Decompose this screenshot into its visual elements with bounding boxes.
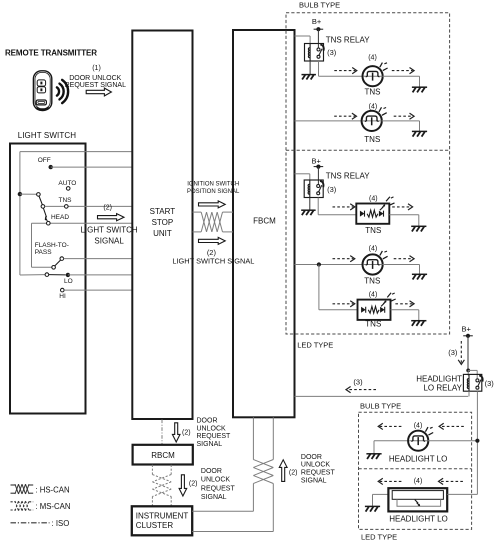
dashed arrow row4 left: [333, 256, 355, 262]
svg-text:HEADLIGHT LO: HEADLIGHT LO: [389, 514, 448, 523]
lamp TNS row2: [362, 107, 387, 131]
wire: pole to blade: [20, 193, 37, 195]
arrow: ignition switch position signal: [199, 201, 226, 208]
svg-text:REQUEST: REQUEST: [301, 470, 336, 477]
svg-text:TNS: TNS: [59, 197, 73, 204]
dashed separator headlight: [359, 468, 472, 470]
svg-text:STOP: STOP: [152, 218, 174, 227]
svg-text:(4): (4): [369, 196, 378, 203]
dashed arrow rowB right: [439, 478, 463, 484]
svg-text:DOOR: DOOR: [197, 417, 218, 424]
svg-text:(3): (3): [327, 185, 337, 194]
svg-text:SIGNAL: SIGNAL: [197, 441, 223, 448]
svg-text:(3): (3): [448, 348, 458, 357]
wire: TNS signal: [45, 205, 133, 207]
svg-text:LO: LO: [64, 278, 73, 285]
radio waves: [57, 80, 68, 103]
svg-text:HEAD: HEAD: [51, 214, 69, 221]
label door unlock request signal stack2: [201, 468, 236, 501]
svg-text:REMOTE TRANSMITTER: REMOTE TRANSMITTER: [5, 49, 97, 58]
svg-text:UNLOCK: UNLOCK: [301, 462, 331, 469]
svg-text:TNS RELAY: TNS RELAY: [326, 35, 371, 44]
svg-text:RBCM: RBCM: [151, 451, 175, 460]
svg-text:: MS-CAN: : MS-CAN: [35, 502, 70, 511]
svg-text:(2): (2): [289, 469, 298, 476]
svg-text:BULB TYPE: BULB TYPE: [299, 0, 340, 9]
svg-text:UNLOCK: UNLOCK: [197, 425, 227, 432]
label LIGHT SWITCH SIGNAL: [81, 225, 138, 245]
contact: blade pivot: [37, 193, 41, 197]
box: RBCM: [133, 445, 193, 465]
dashed arrow row3 right: [392, 204, 412, 210]
svg-text:TNS: TNS: [365, 226, 381, 235]
svg-text:FBCM: FBCM: [253, 217, 276, 226]
door unlock request arrow: [86, 88, 111, 96]
dashed arrow row5 left: [333, 301, 355, 307]
svg-text:(2): (2): [103, 204, 112, 211]
svg-text:UNLOCK: UNLOCK: [201, 477, 231, 484]
legend HS-CAN symbol: [11, 484, 34, 494]
wire: B+ to relay1 switch: [317, 29, 319, 48]
svg-text:PASS: PASS: [35, 249, 53, 256]
ground: row3: [411, 226, 426, 231]
svg-text:TNS: TNS: [365, 319, 381, 328]
lamp TNS row1: [363, 63, 388, 87]
node: OFF contact: [49, 165, 53, 169]
ground: row4: [412, 274, 427, 279]
node: rowA junction: [475, 439, 479, 443]
node: switch pole: [18, 192, 22, 196]
svg-text:BULB TYPE: BULB TYPE: [360, 402, 401, 411]
box: FBCM: [233, 30, 295, 417]
wire: light switch pole bus: [19, 152, 21, 275]
B+ node row3: [314, 165, 324, 169]
light switch box: [10, 144, 86, 414]
wire: lamp rowA to relay output: [428, 440, 478, 442]
label INSTRUMENT CLUSTER: [136, 511, 189, 530]
dashed arrow row3 left: [333, 204, 355, 210]
wire: FBCM to lamp row4: [295, 264, 364, 266]
svg-text:REQUEST SIGNAL: REQUEST SIGNAL: [65, 82, 126, 89]
svg-text:DOOR: DOOR: [301, 454, 322, 461]
ground: row2: [412, 131, 427, 136]
ISO line START STOP to RBCM: [161, 420, 163, 445]
svg-text:(4): (4): [414, 422, 423, 429]
dashed arrow rowB left: [378, 478, 401, 484]
contact HEAD: [47, 221, 51, 225]
wire: FBCM to headlight relay coil: [295, 395, 469, 397]
wire: relay2 coil to ground: [309, 198, 311, 211]
wire: ground to lamp rowA: [374, 441, 409, 454]
wire: junction to LED row5: [319, 265, 358, 310]
wire: relay1 coil to ground: [309, 61, 311, 75]
wire: pole to start stop unit: [20, 151, 132, 153]
svg-text:SIGNAL: SIGNAL: [301, 478, 327, 485]
wire: FBCM to lamp row2: [295, 120, 363, 122]
svg-text:IGNITION SWITCH: IGNITION SWITCH: [187, 182, 239, 188]
wire: LED row3 to ground: [389, 215, 419, 227]
svg-text:LIGHT SWITCH: LIGHT SWITCH: [81, 225, 138, 234]
wire: pole to dimmer blade: [20, 274, 45, 276]
svg-text:LED TYPE: LED TYPE: [297, 341, 333, 350]
ground: relay1 coil: [301, 75, 315, 80]
ground: rowB: [365, 506, 380, 511]
arrow: light switch signal to FBCM: [199, 237, 226, 244]
switch blade lower with arrowhead: [43, 208, 48, 221]
svg-text:(2): (2): [189, 480, 198, 487]
switch blade upper: [39, 196, 42, 205]
remote transmitter key fob: [33, 71, 51, 110]
svg-text:REQUEST: REQUEST: [197, 433, 232, 440]
wire: LED rowB to relay output: [447, 493, 477, 495]
lamp TNS row4: [363, 251, 388, 275]
svg-text:TNS: TNS: [364, 135, 380, 144]
node: LO contact: [66, 273, 70, 277]
contact AUTO: [66, 187, 70, 191]
light switch signal arrow: [98, 214, 125, 221]
wire: lamp row2 to ground: [381, 121, 419, 131]
svg-text:(1): (1): [92, 65, 101, 72]
dashed arrow row4 right: [394, 256, 414, 262]
legend MS-CAN symbol: [11, 501, 34, 511]
svg-text:INSTRUMENT: INSTRUMENT: [136, 511, 189, 520]
wire: LO signal: [68, 274, 132, 276]
svg-text:(4): (4): [369, 103, 378, 110]
node: relay3 B+ junction: [466, 369, 470, 373]
svg-text:CLUSTER: CLUSTER: [136, 521, 174, 530]
label (1) door unlock request signal: [65, 65, 126, 89]
wire: HEAD signal: [32, 222, 133, 224]
svg-text:(3): (3): [353, 378, 363, 387]
MS-CAN twisted pair RBCM to instrument cluster: [152, 465, 171, 507]
svg-text:DOOR: DOOR: [201, 468, 222, 475]
wire: relay1 switch to lamp row1: [319, 61, 363, 76]
svg-text:TNS: TNS: [365, 88, 381, 97]
ground: row5: [411, 321, 426, 326]
contact HI: [61, 288, 65, 292]
svg-text:LO RELAY: LO RELAY: [423, 383, 462, 392]
wire: FBCM to relay2 coil: [295, 174, 310, 180]
dashed separator bulb/led: [286, 149, 450, 151]
TNS relay 2 (LED type): [304, 180, 323, 198]
dashed arrow rowA right: [439, 423, 464, 429]
dashed arrow row2 right: [394, 113, 414, 119]
svg-text:REQUEST: REQUEST: [201, 485, 236, 492]
HS-CAN twisted pair START STOP to FBCM: [193, 212, 234, 232]
svg-text:LIGHT SWITCH: LIGHT SWITCH: [18, 131, 77, 140]
ground: relay2 coil: [301, 210, 315, 215]
wire: lamp row1 to ground: [382, 76, 419, 87]
label door unlock request signal stack3: [301, 454, 336, 485]
label START STOP UNIT: [150, 207, 176, 238]
dashed arrow: headlight feed left: [346, 387, 376, 393]
wire: relay3 B+ jog: [468, 370, 477, 378]
wire: relay3 switch output: [476, 391, 478, 494]
dashed arrow row1 right: [392, 68, 414, 74]
wire: relay2 switch to LED row3: [318, 198, 356, 215]
LED TNS row3: [356, 197, 394, 224]
wire: HEAD to flash-to-pass pole: [32, 223, 52, 267]
headlight LO relay: [463, 374, 482, 391]
svg-text:(3): (3): [327, 48, 337, 57]
dashed arrow: B+ headlight down: [458, 341, 464, 364]
wire: lamp row4 to ground: [382, 265, 419, 275]
box: INSTRUMENT CLUSTER: [132, 506, 192, 535]
dashed arrow row5 right: [395, 301, 414, 307]
svg-text:OFF: OFF: [38, 157, 51, 164]
contact TNS: [65, 205, 69, 209]
label FLASH-TO-PASS: [35, 242, 69, 256]
label door unlock request signal stack1: [197, 417, 232, 448]
svg-text:(3): (3): [485, 379, 495, 388]
svg-text:B+: B+: [312, 17, 322, 26]
dashed box TNS types: [286, 13, 450, 334]
wire: B+ to headlight relay: [467, 336, 469, 371]
node: row4 junction: [317, 262, 321, 266]
legend ISO line: [11, 522, 50, 524]
svg-text:SIGNAL: SIGNAL: [201, 494, 227, 501]
svg-text:(4): (4): [414, 478, 423, 485]
wire: LED row5 to ground: [391, 310, 419, 321]
ground: row1: [412, 87, 427, 92]
arrow: door unlock request to FBCM: [279, 460, 287, 482]
svg-text:POSITION SIGNAL: POSITION SIGNAL: [187, 189, 240, 195]
wire: flash-to-pass signal: [64, 258, 133, 260]
svg-text:HEADLIGHT LO: HEADLIGHT LO: [389, 455, 448, 464]
svg-text:TNS RELAY: TNS RELAY: [326, 172, 371, 181]
LED HEADLIGHT LO: [388, 488, 447, 511]
box: START STOP UNIT: [132, 31, 192, 420]
dashed box headlight types: [359, 412, 472, 529]
TNS relay 1 (bulb type): [305, 44, 324, 62]
B+ node headlight: [463, 334, 473, 338]
svg-text:(4): (4): [368, 55, 377, 62]
contact: flash-to-pass: [60, 257, 64, 261]
svg-text:B+: B+: [462, 324, 472, 333]
remote transmitter label: [5, 49, 97, 58]
arrow: door unlock request to RBCM: [172, 423, 180, 442]
dashed arrow row2 left: [334, 113, 356, 119]
wire: B+ to relay2 switch: [317, 167, 319, 185]
wire: FBCM to relay1 coil: [295, 36, 311, 44]
wire: ground to LED rowB: [373, 494, 389, 506]
svg-text:(2): (2): [182, 430, 191, 437]
svg-text:(4): (4): [369, 292, 378, 299]
svg-text:LED TYPE: LED TYPE: [361, 532, 397, 541]
contact: flash-to-pass blade rest: [52, 266, 56, 270]
svg-text:SIGNAL: SIGNAL: [94, 236, 124, 245]
ground: rowA: [366, 454, 381, 459]
wire: relay3 coil to FBCM wire: [468, 391, 470, 396]
flash-to-pass blade: [55, 260, 61, 266]
wire: HI signal: [64, 289, 132, 291]
dimmer blade: [49, 274, 66, 276]
lamp HEADLIGHT LO: [408, 427, 433, 451]
label IGNITION SWITCH POSITION SIGNAL: [187, 182, 240, 196]
svg-text:: ISO: : ISO: [52, 519, 70, 528]
wire: relay3 coil top: [467, 370, 469, 375]
contact: blade joint: [41, 205, 45, 209]
dashed arrow row1 left: [334, 68, 357, 74]
HS-CAN twisted pair FBCM to instrument cluster: [192, 417, 273, 531]
svg-text:B+: B+: [312, 156, 322, 165]
svg-text:AUTO: AUTO: [58, 180, 76, 187]
svg-text:UNIT: UNIT: [153, 229, 172, 238]
svg-text:LIGHT SWITCH SIGNAL: LIGHT SWITCH SIGNAL: [172, 256, 254, 265]
B+ node row1: [314, 27, 324, 31]
svg-text:: HS-CAN: : HS-CAN: [35, 485, 69, 494]
arrow: door unlock request to cluster: [179, 475, 187, 496]
wire: OFF signal: [51, 166, 133, 168]
label HEADLIGHT LO RELAY: [416, 375, 462, 393]
dashed arrow rowA left: [378, 423, 401, 429]
contact: dimmer blade pivot: [45, 273, 49, 277]
LED TNS row5: [358, 293, 396, 320]
svg-text:START: START: [150, 207, 176, 216]
svg-text:(4): (4): [369, 246, 378, 253]
svg-text:HEADLIGHT: HEADLIGHT: [416, 375, 462, 384]
svg-text:HI: HI: [59, 293, 66, 300]
svg-text:TNS: TNS: [364, 276, 380, 285]
